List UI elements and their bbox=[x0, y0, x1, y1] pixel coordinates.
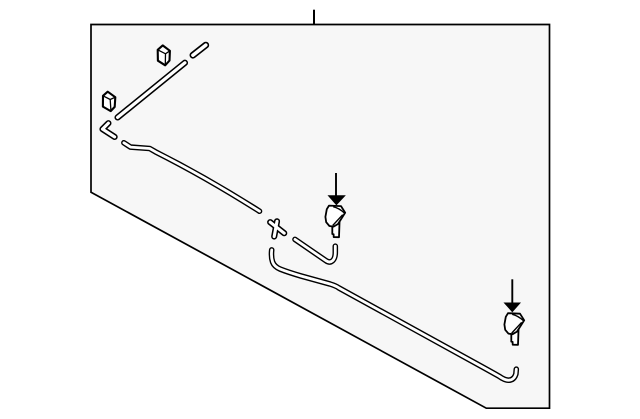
washer nozzle 2 bbox=[504, 313, 524, 345]
short hose segment (top) bbox=[193, 45, 206, 55]
arrow 1 bbox=[329, 173, 345, 205]
clip C2 (left cube) bbox=[103, 92, 115, 111]
long thin tube (top-left) bbox=[118, 63, 185, 118]
middle hose bbox=[124, 143, 260, 211]
main hose (bottom) bbox=[271, 250, 516, 380]
connector hose (middle V) bbox=[295, 239, 335, 262]
arrow 2 bbox=[505, 279, 520, 311]
cross connector bbox=[270, 221, 284, 236]
elbow clip bbox=[103, 123, 115, 137]
top tick mark bbox=[313, 10, 315, 25]
panel outline bbox=[91, 25, 550, 409]
washer nozzle 1 bbox=[325, 206, 345, 238]
clip C1 (top cube) bbox=[158, 45, 170, 65]
